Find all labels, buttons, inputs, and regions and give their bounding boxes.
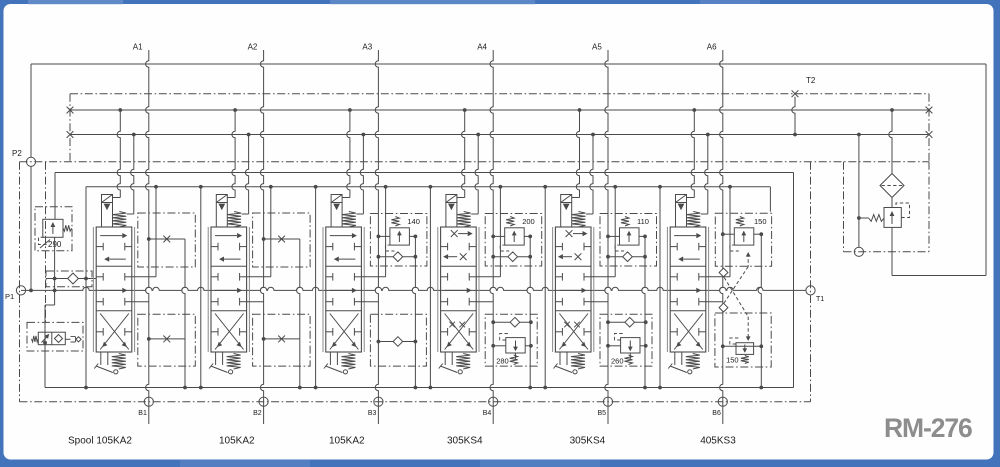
check valve CV1 line (46, 278, 96, 280)
work line A2/B2 vertical (260, 50, 263, 424)
plug X left end H4 (67, 131, 74, 138)
pilot dash-dot line T2 (H2) (70, 93, 929, 95)
valve 6 separators (670, 265, 706, 267)
svg-text:405KS3: 405KS3 (700, 436, 736, 447)
port relief RV150 pilot dashed (730, 245, 739, 251)
wire Y2 right drop to section6 relief box (769, 187, 771, 212)
junction dot P2 riser on P1 (29, 289, 33, 293)
valve 4 port ticks y301.7 (441, 301, 448, 303)
junction dot RV110 left (606, 235, 610, 239)
main enclosure dash-dot bottom edge (H8) (20, 401, 811, 403)
svg-text:A2: A2 (248, 43, 258, 52)
wire inlet jog (45, 304, 55, 306)
pilot spring section 2 (227, 212, 241, 228)
port relief RV150 ports (723, 233, 735, 235)
relief valve RV290 body (43, 219, 63, 237)
option plug line bottom section 1 (149, 338, 185, 340)
junction dot check left 140 (377, 255, 381, 259)
junction dot drain-H7 section 3 (314, 386, 318, 390)
junction dot stub2 H4 section 1 (132, 133, 136, 137)
option plug X top section 2 (278, 236, 285, 243)
filter diamond (880, 174, 904, 198)
valve 5 mounting rails (552, 227, 554, 352)
option dash-dot box top section 1 (138, 213, 196, 267)
junction dot service-Y2 section 3 (384, 185, 388, 189)
port B5 symbol (603, 397, 612, 406)
bottom relief RV280b spring (510, 355, 518, 365)
junction dot inlet riser on P1 (53, 289, 57, 293)
junction dot bottom check right (414, 340, 418, 344)
valve 1 port ticks y331.8 (96, 331, 103, 333)
bottom relief RV260b body (621, 338, 640, 353)
manual lever section 4 (440, 366, 457, 373)
plug X right end H3 (926, 107, 933, 114)
relief valve RV290 spring (63, 225, 72, 231)
junction dot RV290 outlet at check line (53, 277, 57, 281)
junction dot bottom line right 260 (644, 320, 648, 324)
valve 5 port ticks y276.8 (555, 276, 562, 278)
valve 3 separators (326, 265, 362, 267)
solenoid valve 1 box (102, 195, 113, 203)
valve 6 port ticks y301.7 (670, 301, 677, 303)
svg-text:A4: A4 (477, 43, 487, 52)
option plug X bottom section 1 (163, 336, 170, 343)
service wire section 1 (155, 187, 157, 277)
valve 2 P-passage arrow (215, 289, 237, 291)
junction dots RV260b ports (606, 344, 610, 348)
junction dot check right 140 (414, 255, 418, 259)
bottom relief RV150b line (723, 345, 762, 347)
valve 1 port ticks y246.6 (96, 246, 103, 248)
port relief RV150 dash-dot box (715, 213, 771, 266)
junction dot drain-Y2 section 5 (543, 185, 547, 189)
junction dot compensator (43, 341, 47, 345)
port B3 symbol (374, 397, 383, 406)
service wire section 5 (614, 187, 616, 277)
bottom check line section 3 (378, 341, 415, 343)
svg-text:B3: B3 (368, 410, 377, 417)
port relief RV150 body (734, 228, 754, 245)
svg-text:305KS4: 305KS4 (447, 436, 483, 447)
junction dot pilot riser spring (857, 216, 861, 220)
pilot wire stub2 section 3 (360, 135, 363, 215)
junction dot option riser H7 section 1 (183, 386, 187, 390)
plug X right end H4 (926, 131, 933, 138)
valve 5 port ticks y301.7 (555, 301, 562, 303)
bottom relief RV150b arrow (744, 345, 746, 353)
pilot wire stub2 section 5 (590, 135, 593, 215)
body drain stubs section 2 (215, 352, 217, 365)
valve 4 pos2 plug X (460, 253, 467, 260)
junction dot drain-Y2 section 2 (199, 185, 203, 189)
drain wire section 6 (659, 187, 661, 388)
bottom relief RV260b spring (625, 355, 633, 365)
solenoid valve 3 poppet triangle (333, 204, 340, 211)
valve 4 crossed position plugs (449, 322, 455, 328)
pilot wire stub1 section 3 (342, 197, 350, 199)
svg-text:T1: T1 (816, 296, 824, 303)
solenoid valve 2 box (216, 195, 227, 203)
junction dot option bottom section 2 (262, 337, 266, 341)
main enclosure dash-dot inner-left edge (45, 162, 47, 323)
anti-cav diamond B6 (719, 303, 728, 312)
junction dot gallery H3 filter (890, 108, 894, 112)
check valve CV1 dash-dot box (46, 271, 92, 287)
junction dot bottom check left (377, 340, 381, 344)
bottom relief RV260b dash-dot box (600, 314, 652, 366)
junction dot stub2 H4 section 4 (476, 133, 480, 137)
junction dot option bottom section 1 (147, 337, 151, 341)
wire RV200 riser (527, 236, 530, 387)
valve 2 separators (211, 265, 247, 267)
port B1 symbol (144, 397, 153, 406)
junction dot option top section 1 (147, 237, 151, 241)
port relief RV140 arrow (398, 232, 400, 243)
option riser section 2 (297, 239, 300, 388)
junction dot CV1 right (84, 277, 88, 281)
svg-text:150: 150 (754, 217, 767, 226)
junction dot RV200 right (528, 235, 532, 239)
body drain stubs section 4 (444, 352, 446, 365)
valve 4 mounting rails (437, 227, 439, 352)
border watermark patch top 1 (28, 0, 123, 5)
bottom relief RV150b spring (741, 356, 749, 364)
manual lever section 1 (96, 366, 113, 373)
supply line P1 (H6) (21, 287, 806, 290)
manual lever section 6 (670, 366, 687, 373)
junction dot option riser H7 section 2 (298, 386, 302, 390)
main relief pilot dashed loop (896, 203, 910, 218)
valve 3 P-passage arrow (330, 289, 352, 291)
junction dot stub1 H3 section 2 (233, 108, 237, 112)
svg-text:A6: A6 (707, 43, 717, 52)
detent circle section 3 (343, 370, 347, 374)
junction dot RV140 right (414, 235, 418, 239)
drain wire section 2 (200, 187, 202, 388)
bottom anti-cav diamond 280 (510, 317, 520, 327)
svg-text:280: 280 (496, 357, 509, 366)
work line A6/B6 vertical (720, 50, 723, 424)
junction dot RV110 right (643, 235, 647, 239)
valve 5 port ticks y331.8 (555, 331, 562, 333)
wire Y1 right side drop (793, 173, 795, 388)
port relief RV150 arrow (743, 232, 745, 243)
junction dot RV150b right (759, 344, 763, 348)
pilot wire stub2 section 4 (475, 135, 478, 215)
valve 1 separators (96, 265, 132, 267)
bottom check dash-dot box section 3 (370, 314, 426, 366)
valve 6 P-passage arrow (674, 289, 696, 291)
wire RV150 riser (758, 234, 761, 387)
junction dot stub1 H3 section 1 (118, 108, 122, 112)
wire RV140 riser (412, 236, 415, 387)
port relief RV200 spring (506, 217, 514, 227)
crossover dashed line 1 (724, 278, 748, 317)
valve 2 port ticks y301.7 (211, 301, 218, 303)
work-port link B section 6 (706, 301, 723, 303)
valve 3 crossed position (330, 314, 359, 350)
border watermark patch bottom 2 (480, 460, 600, 467)
bottom relief RV280b port lines (493, 345, 506, 347)
wire right riser from H1 down to relief outlet (985, 64, 987, 276)
pilot line Y1 (55, 172, 794, 174)
anti-cav diamond A6 (719, 268, 728, 277)
svg-text:200: 200 (522, 217, 535, 226)
junction dot RV200 riser H7 (528, 386, 532, 390)
dash-dot riser left connecting H2 to P2 line (69, 94, 71, 162)
border watermark patch top 2 (330, 0, 535, 5)
port relief RV140 pilot dashed (385, 245, 394, 251)
drain wire section 1 (85, 187, 87, 388)
detent circle section 5 (573, 370, 577, 374)
return spring section 1 (112, 354, 126, 370)
valve 6 pos1 arrow (674, 235, 696, 237)
valve 3 port ticks y246.6 (326, 246, 333, 248)
border watermark patch bottom 1 (180, 460, 310, 467)
valve 2 crossed position (215, 314, 244, 350)
svg-text:A3: A3 (362, 43, 372, 52)
crossover dashed line 2 (724, 267, 748, 303)
return spring section 4 (456, 354, 470, 370)
junction dot service-Y2 section 4 (499, 185, 503, 189)
work line A4/B4 vertical (490, 50, 493, 424)
port relief RV110 ports (608, 235, 620, 237)
main enclosure dash-dot right edge (810, 162, 812, 402)
valve 4 pos2 arrow (448, 256, 457, 258)
solenoid valve 1 poppet triangle (104, 204, 111, 211)
wire RV290 outlet down (54, 237, 56, 305)
junction dot RV200 left (491, 235, 495, 239)
junction dot option top section 2 (262, 237, 266, 241)
svg-text:305KS4: 305KS4 (570, 436, 606, 447)
port relief RV200 dash-dot box (485, 214, 542, 267)
pilot wire stub2 section 2 (245, 135, 248, 215)
pilot wire stub2 section 6 (705, 135, 708, 215)
port relief RV140 dash-dot box (370, 214, 427, 267)
valve 5 crossed position plugs (564, 322, 570, 328)
work-port link B section 3 (361, 301, 378, 303)
wire relief outlet bottom run (892, 275, 986, 277)
relief valve RV290 internal arrow (52, 223, 54, 234)
valve 1 P-passage arrow (100, 289, 122, 291)
valve 4 pos1 arrow (458, 233, 468, 235)
valve 4 pos1 plug X (451, 230, 458, 237)
valve 3 pos1 arrow (330, 235, 352, 237)
valve 2 port ticks y276.8 (211, 276, 218, 278)
bottom anti-cav diamond 260 (625, 317, 635, 327)
svg-text:105KA2: 105KA2 (219, 436, 255, 447)
junction dot stub2 H4 section 6 (706, 133, 710, 137)
detent circle section 6 (688, 370, 692, 374)
option dash-dot box top section 2 (253, 213, 311, 267)
solenoid valve 1 cap column (101, 203, 103, 228)
valve 3 port ticks y331.8 (326, 331, 333, 333)
compensator split (51, 332, 53, 345)
option dash-dot box bottom section 1 (138, 314, 196, 366)
junction dot check left 200 (491, 255, 495, 259)
valve 2 port ticks y331.8 (211, 331, 218, 333)
junction dot RV150 riser H7 (759, 386, 763, 390)
valve 6 body (670, 227, 706, 352)
wire T2 return gallery top (H1) (31, 63, 986, 65)
anti-cav check line 140 (378, 256, 415, 258)
wire gallery drop to filter (889, 110, 892, 174)
valve 1 pos1 arrow (100, 235, 122, 237)
valve 2 pos2 arrow (224, 258, 241, 260)
drain wire section 4 (429, 187, 431, 388)
valve 2 port ticks y246.6 (211, 246, 218, 248)
valve 1 body (96, 227, 132, 352)
valve 1 mounting rails (92, 227, 94, 352)
valve 1 crossed position (100, 314, 129, 350)
work line A1/B1 vertical (146, 50, 149, 424)
compensator dashed box (27, 322, 83, 351)
valve 4 separators (441, 265, 477, 267)
port relief RV110 pilot dashed (615, 245, 624, 251)
body drain stubs section 1 (100, 352, 102, 365)
return spring section 3 (341, 354, 355, 370)
solenoid valve 4 poppet triangle (448, 204, 455, 211)
svg-text:P2: P2 (12, 149, 22, 158)
anti-cav check diamond 140 (393, 252, 403, 262)
main relief valve body (884, 208, 901, 228)
anti-cav check line 110 (608, 256, 645, 258)
svg-text:B1: B1 (138, 410, 147, 417)
node T2 plug X (792, 90, 799, 97)
valve 4 port ticks y276.8 (441, 276, 448, 278)
bottom relief RV260b arrow (629, 341, 631, 351)
svg-text:B6: B6 (712, 410, 721, 417)
valve 4 P-passage arrow (445, 289, 467, 291)
solenoid valve 5 cap column (560, 203, 562, 228)
solenoid valve 2 poppet triangle (218, 204, 225, 211)
valve 5 separators (555, 265, 591, 267)
wire carry-over gallery (H3) (70, 109, 929, 111)
wire Y1 drop into RV290 (54, 173, 56, 220)
pilot wire stub2 section 1 (131, 135, 134, 215)
junction dot bottom line left 260 (606, 320, 610, 324)
border watermark patch top 3 (700, 0, 760, 4)
junction dot service-Y2 section 2 (269, 185, 273, 189)
option plug X bottom section 2 (278, 336, 285, 343)
junction dot pilot riser H4 (857, 133, 861, 137)
drain wire section 3 (315, 187, 317, 388)
junction dot RV150b left (721, 344, 725, 348)
relief valve RV290 lever (40, 240, 50, 249)
valve 3 mounting rails (322, 227, 324, 352)
main enclosure dash-dot left edge (19, 162, 21, 402)
valve 2 mounting rails (207, 227, 209, 352)
junction dot stub1 H3 section 3 (348, 108, 352, 112)
junction dots RV280b ports (491, 344, 495, 348)
bottom relief RV260b pilot dashed (615, 334, 625, 341)
valve 5 P-passage arrow (559, 289, 581, 291)
filter element dashed (882, 185, 903, 187)
work-port link B section 1 (132, 301, 149, 303)
wire T2 stub down (792, 97, 795, 135)
port relief RV200 ports (493, 235, 505, 237)
port relief RV110 dash-dot box (600, 214, 657, 267)
anti-cav check diamond 200 (508, 252, 518, 262)
wire relief pilot left riser (858, 135, 860, 248)
bottom relief RV280b dash-dot box (485, 314, 537, 366)
solenoid valve 6 box (676, 195, 687, 203)
bottom relief RV280b drain stub (515, 353, 517, 360)
outlet dash-dot box (844, 162, 930, 252)
valve 5 port ticks y246.6 (555, 246, 562, 248)
compensator pilot stub right (65, 338, 70, 340)
wire left riser from H1 to P2 port (30, 64, 32, 157)
junction dot drain-H7 section 5 (543, 386, 547, 390)
anti-cav check line 200 (493, 256, 530, 258)
valve 6 port ticks y276.8 (670, 276, 677, 278)
valve 3 port ticks y301.7 (326, 301, 333, 303)
compensator metering arrow (42, 335, 50, 343)
plug X left end H3 (67, 107, 74, 114)
pilot wire stub1 section 2 (227, 197, 235, 199)
junction dot check right 110 (643, 255, 647, 259)
bottom relief RV150b pilot dashed (730, 338, 740, 344)
valve 2 pos1 arrow (215, 235, 237, 237)
svg-text:110: 110 (637, 217, 649, 226)
work line A3/B3 vertical (375, 50, 378, 424)
return spring section 2 (227, 354, 241, 370)
junction dot RV110 riser H7 (643, 386, 647, 390)
junction dot stub1 H3 section 5 (578, 108, 582, 112)
bottom anti-cav line 280 (493, 321, 531, 323)
junction dot drain-H7 section 2 (199, 386, 203, 390)
bottom relief RV260b drain stub (629, 353, 631, 360)
option plug line top section 2 (264, 238, 300, 240)
manual lever section 5 (555, 366, 572, 373)
bottom relief RV280b body (506, 338, 525, 353)
svg-text:105KA2: 105KA2 (329, 436, 365, 447)
valve 2 body (211, 227, 247, 352)
wire filter to relief (891, 198, 893, 208)
option riser section 1 (182, 239, 185, 388)
work-port link B section 2 (247, 301, 264, 303)
junction dot stub1 H3 section 4 (463, 108, 467, 112)
valve 3 port ticks y276.8 (326, 276, 333, 278)
bottom relief RV260b port lines (608, 345, 621, 347)
svg-text:P1: P1 (5, 292, 14, 301)
port B2 symbol (259, 397, 268, 406)
valve 5 pos1 arrow (573, 233, 583, 235)
work line A5/B5 vertical (605, 50, 608, 424)
valve 3 pos2 arrow (339, 258, 356, 260)
valve 1 port ticks y301.7 (96, 301, 103, 303)
junction dot RV150 right (759, 232, 763, 236)
compensator poppet diamond (55, 335, 63, 343)
service wire section 3 (385, 187, 387, 277)
pilot line Y2 (86, 186, 770, 188)
valve 1 pos2 arrow (109, 258, 126, 260)
port relief RV110 spring (621, 217, 629, 227)
bottom relief RV150b body (736, 343, 754, 355)
wire carry-over gallery (H4) (70, 134, 929, 136)
junction dot stub2 H4 section 3 (362, 133, 366, 137)
work-port link B section 4 (476, 301, 493, 303)
pilot wire stub1 section 5 (572, 197, 580, 199)
junction dot service-Y2 section 6 (728, 185, 732, 189)
drain gallery line (H7) (45, 387, 794, 389)
pilot wire stub1 section 4 (457, 197, 465, 199)
check valve CV1 poppet diamond (68, 273, 79, 284)
manual lever section 3 (326, 366, 343, 373)
svg-text:260: 260 (611, 357, 624, 366)
wire RV110 riser (642, 236, 645, 387)
port P2 symbol (26, 157, 35, 166)
